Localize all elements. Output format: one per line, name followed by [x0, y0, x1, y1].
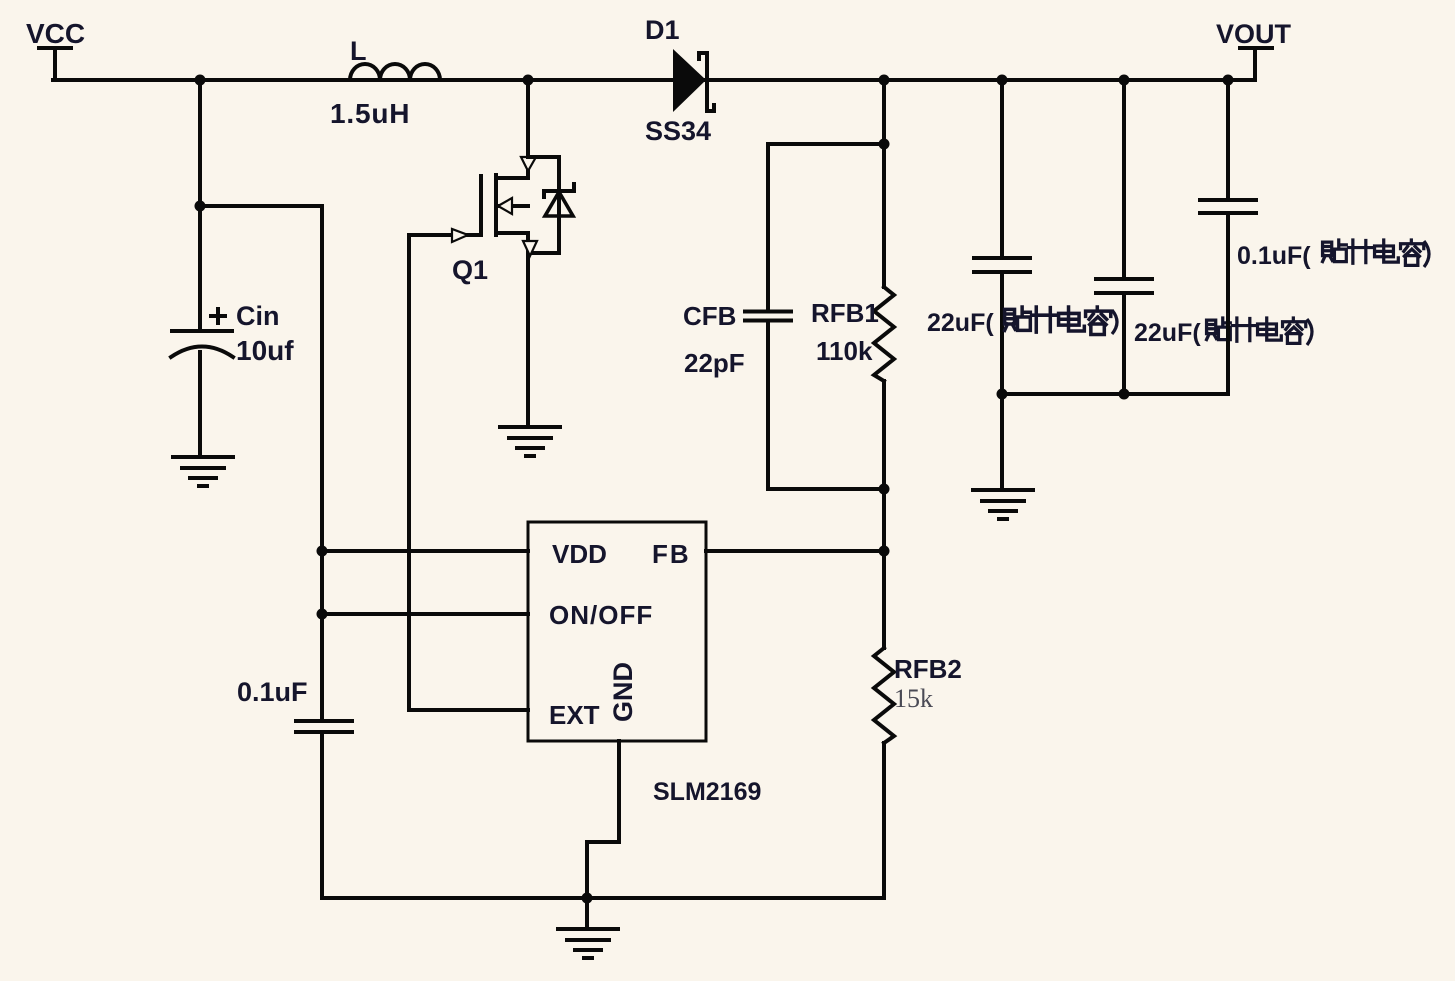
wire gate to EXT vertical [407, 235, 411, 710]
capacitor C2 label 22uF(SMD) [1134, 318, 1312, 347]
svg-text:22pF: 22pF [684, 348, 745, 378]
capacitor C1 22uF [974, 80, 1030, 394]
svg-text:RFB2: RFB2 [894, 654, 962, 684]
resistor RFB1 [874, 287, 894, 381]
wire Q1 source [526, 233, 530, 427]
transistor Q1 NMOS [481, 80, 536, 235]
inductor L [350, 64, 440, 80]
svg-text:VDD: VDD [552, 539, 607, 569]
svg-text:VCC: VCC [26, 18, 85, 49]
pin arrow gate [452, 229, 468, 242]
capacitor C3 0.1uF [1200, 80, 1256, 394]
ground below Q1 [500, 427, 560, 456]
wire RFB1 branch vertical [882, 80, 886, 287]
wire RFB1 to FB node [882, 381, 886, 648]
wire RFB2 to bottom rail [882, 743, 886, 898]
svg-text:10uf: 10uf [236, 335, 294, 366]
svg-text:RFB1: RFB1 [811, 298, 879, 328]
svg-text:VOUT: VOUT [1216, 19, 1292, 49]
capacitor C2 22uF [1096, 80, 1152, 394]
wire FB pin [706, 549, 884, 553]
capacitor Cin (polarized) [171, 331, 233, 457]
svg-text:D1: D1 [645, 15, 680, 45]
wire ON/OFF pin [322, 612, 528, 616]
diode D1 (schottky) [673, 49, 714, 112]
wire IC GND pin [587, 741, 619, 898]
wire Q1 gate [409, 233, 481, 237]
resistor RFB2 [874, 648, 894, 743]
wire bottom rail [322, 896, 884, 900]
wire ground drop right [1000, 394, 1004, 490]
svg-text:CFB: CFB [683, 301, 736, 331]
transistor Q1 body diode [528, 157, 574, 253]
svg-text:FB: FB [652, 539, 691, 569]
capacitor C3 label 0.1uF(SMD) [1237, 240, 1429, 270]
wire VDD feed horizontal [200, 204, 322, 208]
capacitor CFB [745, 144, 791, 489]
svg-text:SS34: SS34 [645, 116, 711, 146]
svg-text:EXT: EXT [549, 700, 600, 730]
wire VDD feed vertical [320, 206, 324, 719]
svg-text:110k: 110k [816, 336, 873, 366]
svg-text:GND: GND [608, 662, 638, 722]
svg-text:Q1: Q1 [452, 255, 488, 285]
wire Cin branch vertical [198, 80, 202, 331]
svg-text:SLM2169: SLM2169 [653, 778, 761, 806]
capacitor C1 label 22uF(SMD) [927, 307, 1117, 337]
wire VDD pin [322, 549, 528, 553]
svg-text:ON/OFF: ON/OFF [549, 600, 653, 630]
wire CFB bottom [768, 487, 884, 491]
wire CFB top [768, 142, 884, 146]
wire top rail [53, 78, 1255, 82]
capacitor C 0.1uF (left) [296, 721, 352, 898]
svg-text:22uF(: 22uF( [927, 309, 994, 337]
svg-text:Cin: Cin [236, 301, 280, 331]
ground below Cin [173, 457, 233, 486]
node VOUT power symbol [1240, 48, 1272, 80]
ground bottom rail [558, 929, 618, 958]
ground right caps [973, 490, 1033, 519]
svg-text:1.5uH: 1.5uH [330, 98, 410, 129]
svg-text:22uF(: 22uF( [1134, 319, 1201, 347]
capacitor Cin plus sign [211, 309, 225, 323]
svg-text:0.1uF(: 0.1uF( [1237, 242, 1311, 270]
node VCC power symbol [39, 48, 71, 80]
wire caps bottom [1002, 392, 1228, 396]
svg-text:0.1uF: 0.1uF [237, 677, 308, 707]
pin arrow source [523, 241, 537, 256]
svg-text:15k: 15k [894, 684, 933, 713]
svg-text:L: L [350, 36, 367, 66]
IC U1 SLM2169 box [528, 522, 706, 741]
wire EXT pin [409, 708, 528, 712]
